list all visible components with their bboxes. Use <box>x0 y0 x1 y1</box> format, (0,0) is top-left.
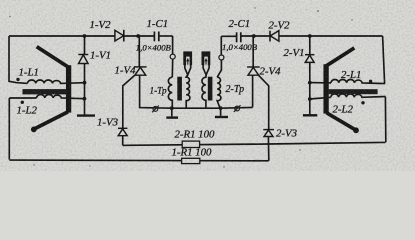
electrode graphic left: bottom diagonal <box>34 112 68 129</box>
wire 2-C1 to 2-V2 <box>241 35 270 37</box>
wire 2-V4 gate lead <box>259 75 269 129</box>
wire 2-C1 drop lower <box>217 60 221 77</box>
electrode graphic left: tip blob <box>31 126 37 132</box>
wire 1-C1 drop lower <box>171 59 173 77</box>
ground under node 1 <box>77 114 95 116</box>
wire right frame edge upper <box>383 36 385 84</box>
connector circle 1 <box>170 54 175 59</box>
diode 2-V3 <box>263 130 274 137</box>
diode 2-V1 <box>305 55 314 63</box>
spark gap 2 slot <box>204 57 208 66</box>
spark gap 1 slot <box>186 57 190 66</box>
node 2-L2 junction <box>308 97 312 101</box>
transformer 2-Tp primary winding <box>202 75 206 108</box>
wire 1-V1 anode feed from top bus <box>84 36 86 54</box>
resistor 1-R1 <box>182 158 200 163</box>
inductor 2-L2 <box>331 94 386 97</box>
spark gap 1 arrow <box>187 61 189 65</box>
wire 1-V4 gate lead <box>123 75 135 128</box>
transformer 1-Tp core <box>177 77 182 101</box>
inductor 1-L1 <box>28 80 85 83</box>
wire 2-L1 lead <box>310 82 331 84</box>
node 1-L2 junction <box>83 97 87 101</box>
core bar left block <box>23 89 67 94</box>
wire top bus left segment <box>9 35 115 37</box>
diode 1-V3 <box>118 128 127 135</box>
electrode graphic right: top diagonal <box>326 48 354 66</box>
spark gap 2 arrow <box>205 61 207 65</box>
wire 2-V1 feed from top bus <box>309 36 311 55</box>
wire 2-V4 riser <box>252 75 254 107</box>
electrode graphic right: tip blob <box>353 127 359 133</box>
wire 2-C1 drop upper <box>220 36 222 55</box>
node transformer bus 2 <box>219 106 223 110</box>
connector circle 2 <box>219 55 224 60</box>
ground under 2-Tp <box>220 108 222 116</box>
diode 1-V1 <box>78 55 88 64</box>
plug connector symbol 2 <box>234 105 241 112</box>
diode 2-V2 <box>270 31 279 42</box>
wire 1-R1 bottom bus <box>9 159 268 162</box>
plug connector symbol 1 <box>152 106 159 113</box>
capacitor 2-C1 <box>237 32 241 42</box>
polarity dot 1-L2 <box>21 101 24 104</box>
electrode graphic right: bottom diagonal <box>327 113 356 130</box>
resistor 2-R1 <box>182 141 199 147</box>
spark gap 1 body <box>183 51 192 65</box>
wire 2-C1 corner segment <box>221 35 236 37</box>
polarity dot 1-L1 <box>16 78 19 81</box>
inductor 1-L2 <box>37 95 85 99</box>
transformer 1-Tp primary winding <box>168 77 172 108</box>
wire 2-V3 drop crossing to 1-R1 bus <box>267 137 269 161</box>
node top bus 1 <box>83 34 87 38</box>
ground under 1-Tp <box>171 108 173 116</box>
diode 1-V2 <box>115 30 124 42</box>
scan speck group <box>9 7 352 167</box>
wire top bus right segment <box>279 35 383 37</box>
wire left frame edge upper + 1-L1 lead <box>9 36 28 83</box>
wire top bus between 1-V2 and 1-C1 <box>124 35 154 37</box>
node transformer bus 1 <box>170 106 174 110</box>
thyristor U 2-V4 <box>247 67 260 75</box>
wire 1-C1 drop upper <box>172 36 174 54</box>
node top bus 3 <box>252 34 256 38</box>
wire 1-V3 drop to resistor bus <box>122 136 124 146</box>
transformer 2-Tp secondary winding <box>217 77 221 108</box>
node 1-L1 junction <box>83 81 87 85</box>
wire 1-C1 to corner <box>159 35 173 37</box>
polarity dot 2-L2 <box>361 101 364 104</box>
ground under node 2 <box>303 114 317 116</box>
spark gap 2 legs <box>203 65 209 75</box>
spark gap 1 legs <box>185 65 191 75</box>
wire 2-V4 feed from top bus <box>252 36 254 67</box>
wire right frame edge lower <box>384 97 386 143</box>
wire 1-V4 cathode down and transformer bottom bus <box>140 75 253 108</box>
wire 1-L2 lead <box>9 97 36 99</box>
core bar right block <box>329 89 378 94</box>
node top bus 4 <box>308 34 312 38</box>
wire 2-R1 bus and right frame bottom <box>123 142 386 145</box>
wire 2-L2 lead <box>310 97 331 99</box>
node top bus 2 <box>136 34 140 38</box>
electrode graphic right: vertical bar <box>323 64 328 113</box>
electrode graphic left: top diagonal <box>37 47 69 68</box>
wire left frame edge lower <box>8 98 10 160</box>
wire 1-V1 to node and ground <box>84 64 86 115</box>
wire 2-V1 to nodes and ground <box>309 62 311 114</box>
polarity dot 2-L1 <box>369 80 372 83</box>
transformer 2-Tp core <box>208 77 213 101</box>
thyristor U 1-V4 <box>134 67 147 75</box>
inductor 2-L1 <box>331 80 385 84</box>
capacitor 1-C1 <box>154 32 158 42</box>
transformer 1-Tp secondary winding <box>186 75 190 108</box>
wire 1-V4 feed from top bus <box>138 36 140 67</box>
electrode graphic left: vertical bar <box>66 65 71 112</box>
spark gap 2 body <box>202 51 211 65</box>
node 2-L1 junction <box>308 81 312 85</box>
